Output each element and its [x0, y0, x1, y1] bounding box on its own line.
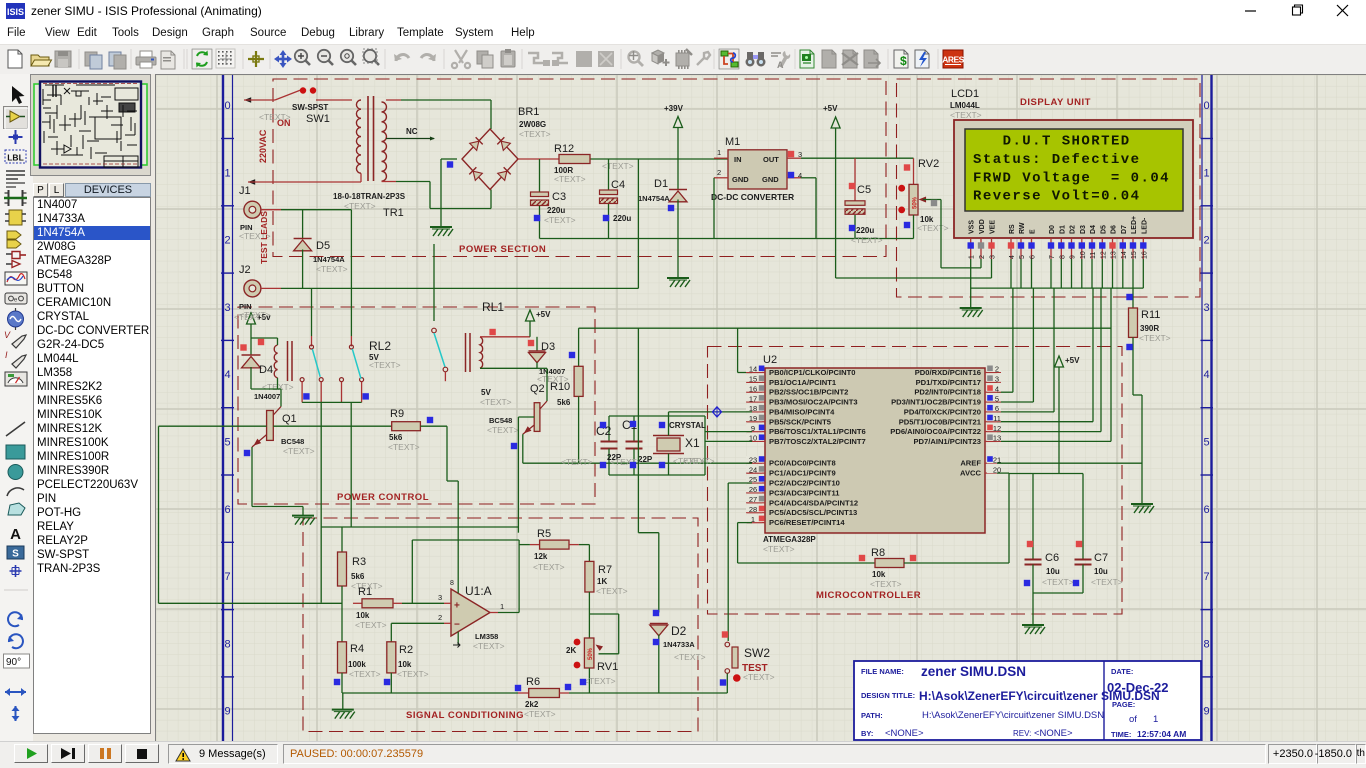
svg-text:220VAC: 220VAC: [258, 129, 268, 163]
label SW2: [744, 646, 770, 660]
svg-text:DC-DC CONVERTER: DC-DC CONVERTER: [711, 192, 794, 202]
svg-text:4: 4: [1009, 255, 1016, 259]
capacitor C2: [601, 416, 618, 475]
svg-text:50%: 50%: [913, 196, 919, 209]
svg-text:1N4007: 1N4007: [254, 392, 280, 401]
svg-text:19: 19: [749, 414, 757, 423]
wire AVCC to +5V: [997, 473, 1083, 563]
svg-text:9: 9: [224, 706, 230, 718]
wire coil bottom to Q1 collector: [251, 389, 281, 407]
svg-text:R8: R8: [871, 547, 885, 559]
svg-text:8: 8: [450, 580, 454, 587]
resistor R2: [387, 623, 396, 693]
ground AREF: [1131, 504, 1154, 513]
svg-text:<TEXT>: <TEXT>: [519, 129, 551, 139]
svg-text:8: 8: [1059, 255, 1066, 259]
wire R5 to R7: [588, 545, 590, 562]
svg-text:PB2/SS/OC1B/PCINT2: PB2/SS/OC1B/PCINT2: [769, 388, 848, 397]
svg-text:SIGNAL CONDITIONING: SIGNAL CONDITIONING: [406, 710, 524, 721]
svg-text:3: 3: [224, 302, 230, 314]
svg-text:LBL: LBL: [7, 153, 24, 163]
svg-text:5V: 5V: [481, 388, 491, 397]
svg-text:of: of: [1129, 714, 1137, 725]
svg-text:6: 6: [1203, 504, 1209, 516]
svg-text:15: 15: [1131, 251, 1138, 259]
svg-text:U1:A: U1:A: [465, 584, 492, 598]
svg-text:X1: X1: [685, 436, 700, 450]
svg-text:Reverse Volt=0.04: Reverse Volt=0.04: [973, 189, 1140, 205]
svg-text:18-0-18TRAN-2P3S: 18-0-18TRAN-2P3S: [333, 192, 406, 201]
wire +5V stem RL1: [529, 321, 531, 337]
svg-text:2: 2: [995, 365, 999, 374]
svg-text:−: −: [454, 620, 460, 631]
svg-text:0: 0: [1203, 100, 1209, 112]
svg-text:5: 5: [995, 394, 999, 403]
svg-text:<TEXT>: <TEXT>: [524, 709, 556, 719]
svg-text:11: 11: [993, 414, 1001, 423]
capacitor C4: [600, 159, 618, 239]
op-amp U1:A LM358: [438, 481, 504, 648]
svg-text:LM358: LM358: [475, 632, 498, 641]
svg-text:PB1/OC1A/PCINT1: PB1/OC1A/PCINT1: [769, 378, 837, 387]
wire secondary bottom to bridge: [382, 182, 492, 209]
svg-text:<TEXT>: <TEXT>: [561, 457, 593, 467]
power label +5V near U2: [1055, 356, 1081, 367]
svg-text:27: 27: [749, 495, 757, 504]
svg-text:R9: R9: [390, 408, 404, 420]
svg-text:1N4733A: 1N4733A: [663, 640, 695, 649]
svg-text:PC2/ADC2/PCINT10: PC2/ADC2/PCINT10: [769, 479, 840, 488]
svg-text:S: S: [12, 549, 19, 560]
svg-text:U2: U2: [763, 354, 777, 366]
capacitor C6: [1025, 474, 1042, 594]
svg-text:13: 13: [1111, 251, 1118, 259]
resistor R3: [338, 552, 347, 586]
wire Q2 base: [518, 417, 534, 533]
svg-text:<TEXT>: <TEXT>: [743, 672, 775, 682]
svg-text:11: 11: [1090, 252, 1097, 259]
svg-text:PD5/T1/OC0B/PCINT21: PD5/T1/OC0B/PCINT21: [899, 417, 982, 426]
svg-text:R3: R3: [352, 556, 366, 568]
resistor R8: [875, 559, 904, 568]
wire lcd data bus: [971, 259, 1144, 288]
svg-text:1: 1: [500, 602, 504, 611]
label C6: [1045, 552, 1060, 576]
svg-text:PD2/INT0/PCINT18: PD2/INT0/PCINT18: [914, 388, 981, 397]
wire D3 to Q2 collector: [537, 368, 547, 401]
wire PC6 reset net to R8: [738, 523, 875, 563]
wire tie 637 vertical: [637, 159, 639, 288]
section box MICROCONTROLLER: [708, 347, 1123, 615]
svg-text:9: 9: [1070, 255, 1077, 259]
svg-text:OUT: OUT: [763, 155, 779, 164]
wire Q1 base left rail: [159, 426, 343, 603]
svg-text:C5: C5: [857, 184, 871, 196]
resistor R12: [559, 155, 590, 164]
svg-text:C4: C4: [611, 179, 625, 191]
wire long net above U2: [579, 328, 1111, 372]
svg-text:<TEXT>: <TEXT>: [259, 112, 291, 122]
resistor R1: [353, 599, 444, 608]
label R12: [554, 143, 574, 175]
svg-text:AVCC: AVCC: [960, 469, 981, 478]
svg-text:+39V: +39V: [664, 104, 684, 113]
svg-text:D4: D4: [259, 364, 273, 376]
svg-text:2: 2: [224, 235, 230, 247]
svg-text:2: 2: [717, 168, 721, 177]
svg-text:28: 28: [749, 505, 757, 514]
U2 pin AREF: [960, 455, 1001, 467]
svg-text:LED-: LED-: [1141, 217, 1148, 234]
svg-text:C3: C3: [552, 191, 566, 203]
svg-text:15: 15: [749, 375, 757, 384]
svg-text:BC548: BC548: [281, 437, 304, 446]
resistor R11: [1129, 308, 1138, 337]
relay RL2 contacts: [300, 345, 364, 402]
wire lcd vee: [991, 259, 993, 278]
ground below LCD: [960, 308, 983, 317]
label R7: [597, 564, 612, 586]
svg-text:7: 7: [1203, 571, 1209, 583]
label C4: [611, 179, 631, 223]
svg-text:5k6: 5k6: [557, 398, 571, 407]
svg-text:TEST LEADS: TEST LEADS: [259, 211, 269, 264]
svg-text:LED+: LED+: [1131, 216, 1138, 234]
svg-text:<TEXT>: <TEXT>: [544, 215, 576, 225]
transistor Q2 BC548: [522, 401, 547, 463]
label R11: [1140, 309, 1160, 333]
capacitor C3: [531, 159, 549, 239]
state squares signal conditioning: [334, 610, 728, 691]
zener diode D1: [669, 128, 687, 279]
svg-text:D3: D3: [1080, 225, 1087, 234]
svg-text:PD3/INT1/OC2B/PCINT19: PD3/INT1/OC2B/PCINT19: [891, 398, 981, 407]
svg-text:D1: D1: [1059, 225, 1066, 234]
U2 left pins port C: [746, 455, 858, 527]
svg-text:PC6/RESET/PCINT14: PC6/RESET/PCINT14: [769, 518, 845, 527]
wire feedback horizontal 526: [321, 526, 518, 528]
svg-text:R10: R10: [550, 381, 570, 393]
capacitor C7: [1075, 474, 1092, 594]
svg-text:NC: NC: [406, 127, 418, 136]
svg-text:SW1: SW1: [306, 113, 330, 125]
state squares power control: [240, 329, 665, 468]
relay coil RL1 with core: [466, 333, 538, 372]
svg-text:8: 8: [224, 638, 230, 650]
svg-text:J1: J1: [239, 185, 251, 197]
label LCD1: [950, 88, 980, 110]
svg-text:10u: 10u: [1094, 567, 1108, 576]
svg-text:R4: R4: [350, 643, 364, 655]
diode D4: [242, 338, 261, 389]
svg-text:<TEXT>: <TEXT>: [533, 562, 565, 572]
label D5: [313, 240, 345, 264]
svg-text:3: 3: [438, 593, 442, 602]
resistor R10: [574, 328, 583, 463]
svg-text:8: 8: [1203, 638, 1209, 650]
U2 left pins port B: [746, 365, 866, 446]
label R8: [871, 547, 886, 579]
power label +5V near M1: [823, 104, 840, 128]
node junction diamond: [713, 407, 722, 417]
window title bar: [0, 0, 1366, 22]
label R2: [398, 644, 413, 669]
svg-text:<TEXT>: <TEXT>: [487, 425, 519, 435]
svg-text:D5: D5: [1100, 225, 1107, 234]
svg-text:10u: 10u: [1046, 567, 1060, 576]
ground below D1: [667, 278, 690, 287]
svg-text:5: 5: [224, 437, 230, 449]
svg-text:9: 9: [1203, 706, 1209, 718]
svg-text:zener SIMU.DSN: zener SIMU.DSN: [921, 664, 1026, 679]
svg-text:CRYSTAL: CRYSTAL: [669, 421, 706, 430]
lcd pin numbers: [969, 251, 1149, 259]
wire R3 top net: [341, 527, 343, 552]
connector J1: [244, 201, 281, 218]
svg-text:02-Dec-22: 02-Dec-22: [1107, 680, 1168, 695]
svg-text:RV1: RV1: [597, 661, 618, 673]
crystal X1: [653, 412, 684, 475]
svg-text:1: 1: [717, 148, 721, 157]
svg-text:26: 26: [749, 485, 757, 494]
svg-text:+5V: +5V: [1065, 356, 1080, 365]
svg-text:1N4754A: 1N4754A: [313, 255, 345, 264]
label R4: [348, 643, 366, 669]
svg-text:2: 2: [438, 613, 442, 622]
ground below Q1: [292, 516, 315, 525]
svg-text:1K: 1K: [597, 577, 607, 586]
wire NC center tap: [386, 137, 435, 141]
svg-text:D4: D4: [1090, 225, 1097, 234]
svg-text:C7: C7: [1094, 552, 1108, 564]
section box POWER SECTION: [273, 79, 886, 257]
svg-text:<TEXT>: <TEXT>: [917, 223, 949, 233]
svg-text:H:\Asok\ZenerEFY\circuit\zener: H:\Asok\ZenerEFY\circuit\zener SIMU.DSN: [922, 710, 1104, 721]
svg-text:4: 4: [224, 369, 230, 381]
svg-text:220u: 220u: [547, 206, 565, 215]
svg-text:PC3/ADC3/PCINT11: PC3/ADC3/PCINT11: [769, 488, 840, 497]
svg-text:PATH:: PATH:: [861, 711, 883, 720]
ground signal conditioning: [332, 693, 355, 719]
svg-text:220u: 220u: [613, 214, 631, 223]
label X1: [669, 421, 706, 450]
svg-text:GND: GND: [732, 175, 749, 184]
label R6: [525, 676, 540, 709]
U2 right pins port D: [890, 365, 1001, 446]
section box POWER CONTROL: [238, 307, 595, 504]
svg-text:ATMEGA328P: ATMEGA328P: [763, 535, 816, 544]
svg-text:D2: D2: [1070, 225, 1077, 234]
svg-text:R2: R2: [399, 644, 413, 656]
svg-text:R11: R11: [1141, 309, 1160, 321]
lcd pin stubs and numbers: [971, 238, 1144, 259]
power +5V at relay coil: [247, 313, 272, 324]
svg-text:PB3/MOSI/OC2A/PCINT3: PB3/MOSI/OC2A/PCINT3: [769, 398, 858, 407]
svg-text:PD0/RXD/PCINT16: PD0/RXD/PCINT16: [915, 368, 981, 377]
svg-text:<NONE>: <NONE>: [885, 728, 924, 739]
wire R3 bottom to R4 top: [341, 586, 343, 642]
svg-text:D1: D1: [654, 178, 668, 190]
svg-text:12: 12: [1100, 251, 1107, 259]
wire +5V arrow stem: [835, 128, 837, 278]
ground below C6 C7: [1022, 625, 1045, 634]
svg-text:<TEXT>: <TEXT>: [1042, 577, 1074, 587]
svg-text:+5V: +5V: [536, 310, 551, 319]
svg-text:<TEXT>: <TEXT>: [763, 544, 795, 554]
svg-text:LCD1: LCD1: [951, 88, 979, 100]
relay RL1 contact: [432, 244, 448, 381]
state squares power section: [447, 151, 937, 231]
label R3: [351, 556, 366, 581]
label RL2: [369, 339, 391, 362]
power label +39V: [664, 104, 684, 128]
svg-text:<TEXT>: <TEXT>: [473, 641, 505, 651]
svg-text:LM044L: LM044L: [950, 101, 980, 110]
svg-text:<TEXT>: <TEXT>: [851, 235, 883, 245]
svg-text:<NONE>: <NONE>: [1034, 728, 1073, 739]
svg-text:50%: 50%: [588, 647, 594, 660]
svg-text:10k: 10k: [872, 570, 886, 579]
svg-text:6: 6: [995, 404, 999, 413]
svg-text:14: 14: [749, 365, 757, 374]
svg-text:D.U.T SHORTED: D.U.T SHORTED: [1003, 134, 1131, 150]
wire J2 net: [281, 287, 638, 289]
svg-text:MICROCONTROLLER: MICROCONTROLLER: [816, 590, 921, 601]
svg-text:REV:: REV:: [1013, 729, 1031, 738]
microcontroller U2 ATMEGA328P: [765, 368, 985, 533]
svg-text:2: 2: [1203, 235, 1209, 247]
svg-text:1: 1: [224, 167, 230, 179]
svg-text:<TEXT>: <TEXT>: [596, 586, 628, 596]
svg-text:PD6/AIN0/OC0A/PCINT22: PD6/AIN0/OC0A/PCINT22: [890, 427, 981, 436]
svg-text:<TEXT>: <TEXT>: [234, 312, 266, 322]
svg-text:3: 3: [995, 375, 999, 384]
capacitor C1: [626, 416, 643, 475]
svg-text:PD7/AIN1/PCINT23: PD7/AIN1/PCINT23: [913, 437, 981, 446]
wire bridge left to ground: [441, 159, 457, 227]
wire bottom rail power section: [540, 238, 914, 240]
potentiometer RV2: [898, 158, 941, 238]
state squares microcontroller area: [859, 294, 1133, 586]
wire Q1 base to R9: [273, 425, 391, 427]
ground near TR1: [430, 227, 453, 236]
svg-text:+: +: [454, 601, 460, 612]
svg-text:RL2: RL2: [369, 339, 391, 353]
label D4: [254, 364, 280, 401]
label C1: [622, 418, 653, 464]
svg-text:12: 12: [993, 424, 1001, 433]
dc-dc converter M1: [714, 148, 802, 189]
svg-text:<TEXT>: <TEXT>: [349, 669, 381, 679]
diode D3: [529, 337, 546, 369]
svg-text:ISIS: ISIS: [7, 7, 24, 17]
wire bus risers to U2 port D: [997, 288, 1111, 441]
svg-text:<TEXT>: <TEXT>: [602, 161, 634, 171]
svg-text:V: V: [4, 330, 11, 340]
svg-text:16: 16: [1141, 251, 1148, 259]
svg-text:RL1: RL1: [482, 300, 504, 314]
wire PC0 row to Q2 emitter: [523, 462, 752, 464]
svg-text:<TEXT>: <TEXT>: [355, 620, 387, 630]
svg-text:12:57:04 AM: 12:57:04 AM: [1137, 729, 1186, 739]
wire bridge output rail +39V: [518, 158, 728, 160]
transistor Q1 BC548: [252, 407, 281, 448]
svg-text:1: 1: [969, 255, 976, 259]
resistor R7: [585, 561, 594, 592]
label C2: [596, 424, 622, 462]
svg-text:RV2: RV2: [918, 158, 939, 170]
svg-text:POWER SECTION: POWER SECTION: [459, 244, 546, 255]
wire lcd vss to ground: [970, 259, 972, 308]
wire secondary top to bridge: [386, 100, 491, 129]
svg-text:1: 1: [1153, 714, 1158, 725]
svg-text:24: 24: [749, 465, 757, 474]
svg-text:0: 0: [224, 100, 230, 112]
svg-text:VDD: VDD: [979, 219, 986, 234]
sheet border frame: [223, 75, 1212, 742]
svg-text:M1: M1: [725, 136, 740, 148]
label TR1 value: [333, 192, 406, 201]
svg-text:220u: 220u: [856, 226, 874, 235]
wire net to D2 SW2: [638, 328, 752, 641]
status bar: [0, 741, 1366, 768]
svg-text:13: 13: [993, 434, 1001, 443]
svg-text:PC5/ADC5/SCL/PCINT13: PC5/ADC5/SCL/PCINT13: [769, 508, 857, 517]
wire M1 pin2 to rail: [713, 178, 715, 239]
svg-text:PD4/T0/XCK/PCINT20: PD4/T0/XCK/PCINT20: [904, 407, 981, 416]
power +5V at RL1: [526, 310, 552, 321]
svg-text:DATE:: DATE:: [1111, 667, 1133, 676]
label C3: [547, 191, 566, 215]
svg-text:5k6: 5k6: [351, 572, 365, 581]
transformer TR1: [356, 96, 386, 181]
svg-text:PB4/MISO/PCINT4: PB4/MISO/PCINT4: [769, 407, 835, 416]
resistor R9: [392, 422, 421, 431]
svg-text:PC0/ADC0/PCINT8: PC0/ADC0/PCINT8: [769, 459, 836, 468]
svg-text:10k: 10k: [398, 660, 412, 669]
label D2: [663, 624, 695, 649]
U2 pin AVCC: [960, 465, 1001, 477]
connector J2: [244, 280, 281, 297]
label J1: [239, 185, 253, 232]
svg-text:VSS: VSS: [969, 220, 976, 234]
resistor R6: [529, 689, 728, 698]
svg-text:R12: R12: [554, 143, 574, 155]
svg-text:4: 4: [1203, 369, 1209, 381]
wire +5V to coil and D4: [251, 324, 278, 338]
wire 220VAC return: [248, 173, 361, 185]
svg-text:<TEXT>: <TEXT>: [1091, 577, 1123, 587]
svg-text:ARES: ARES: [942, 55, 964, 65]
svg-text:D3: D3: [541, 341, 555, 353]
wire +5V rail from M1 pin3: [801, 157, 914, 159]
wire AREF net: [997, 462, 1142, 464]
relay coil RL2 with core: [274, 338, 292, 389]
svg-text:VEE: VEE: [990, 220, 997, 234]
svg-text:BY:: BY:: [861, 729, 873, 738]
border coordinate numbers: [221, 100, 1213, 744]
svg-text:C6: C6: [1045, 552, 1059, 564]
label C7: [1094, 552, 1108, 576]
label Q1: [281, 413, 304, 446]
bridge rectifier BR1: [462, 129, 518, 190]
svg-text:PAGE:: PAGE:: [1112, 700, 1135, 709]
svg-text:<TEXT>: <TEXT>: [316, 264, 348, 274]
svg-text:12k: 12k: [534, 552, 548, 561]
svg-text:IN: IN: [734, 155, 742, 164]
svg-text:4: 4: [798, 171, 802, 180]
svg-text:E: E: [1030, 229, 1037, 234]
